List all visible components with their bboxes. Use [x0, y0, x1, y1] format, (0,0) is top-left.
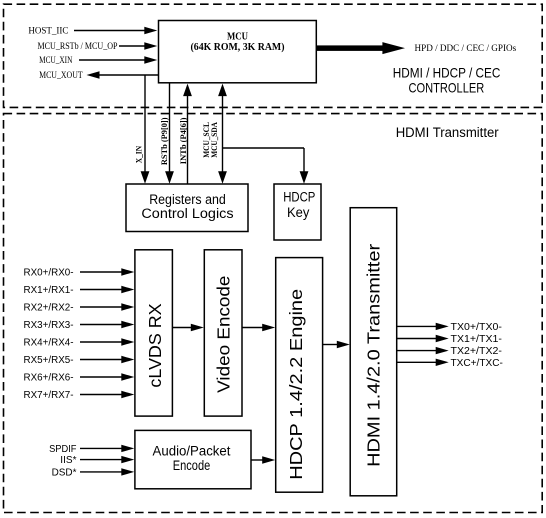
svg-text:HOST_IIC: HOST_IIC: [28, 25, 68, 35]
svg-text:Audio/Packet: Audio/Packet: [153, 443, 231, 458]
svg-text:TX1+/TX1-: TX1+/TX1-: [451, 334, 502, 345]
svg-text:RX6+/RX6-: RX6+/RX6-: [24, 373, 74, 384]
svg-text:MCU_RSTb / MCU_OP: MCU_RSTb / MCU_OP: [38, 41, 118, 51]
svg-text:TXC+/TXC-: TXC+/TXC-: [451, 358, 503, 369]
svg-text:HDMI Transmitter: HDMI Transmitter: [396, 125, 499, 140]
block HDCP Key: [274, 184, 321, 240]
svg-text:RX7+/RX7-: RX7+/RX7-: [24, 390, 74, 401]
wire RX7+/RX7- input: [24, 390, 135, 401]
svg-text:X_IN: X_IN: [134, 146, 143, 163]
svg-text:(64K ROM, 3K RAM): (64K ROM, 3K RAM): [191, 42, 285, 53]
svg-text:HPD / DDC / CEC / GPIOs: HPD / DDC / CEC / GPIOs: [415, 43, 517, 53]
svg-text:Registers and: Registers and: [149, 192, 226, 207]
svg-text:IIS*: IIS*: [60, 455, 76, 466]
block cLVDS RX: [135, 250, 173, 416]
wire RSTb(P9[0]) from MCU down to Registers: [160, 83, 174, 184]
wire RX5+/RX5- input: [24, 355, 135, 366]
wire MCU_XOUT out of MCU (arrow left): [39, 70, 158, 80]
svg-text:Encode: Encode: [173, 458, 211, 473]
wire MCU_XIN into MCU: [39, 55, 157, 65]
block Video Encode: [204, 250, 242, 416]
svg-text:DSD*: DSD*: [52, 467, 77, 478]
wire TX1+/TX1- output: [397, 334, 502, 345]
wire X_IN from MCU_XOUT net down to Registers: [134, 75, 149, 184]
wire IIS* input: [60, 455, 134, 466]
block Registers and Control Logics: [126, 184, 248, 232]
wire HOST_IIC into MCU: [28, 25, 157, 35]
section title HDMI / HDCP / CEC CONTROLLER: [393, 65, 501, 96]
block MCU (64K ROM, 3K RAM): [159, 21, 317, 83]
svg-text:MCU_XIN: MCU_XIN: [39, 55, 73, 65]
block HDCP 1.4/2.2 Engine: [276, 258, 323, 493]
svg-text:INTb (P4[6]): INTb (P4[6]): [179, 117, 188, 164]
svg-text:RX2+/RX2-: RX2+/RX2-: [24, 303, 74, 314]
svg-text:HDCP: HDCP: [283, 190, 315, 205]
wire INTb(P4[6]) from Registers up to MCU: [179, 84, 192, 184]
wire Audio/Packet Encode to HDCP Engine: [251, 456, 275, 463]
svg-text:CONTROLLER: CONTROLLER: [409, 79, 485, 95]
svg-text:HDCP 1.4/2.2 Engine: HDCP 1.4/2.2 Engine: [286, 289, 306, 480]
svg-text:HDMI 1.4/2.0 Transmitter: HDMI 1.4/2.0 Transmitter: [364, 244, 384, 467]
wire DSD* input: [52, 467, 135, 478]
svg-text:SPDIF: SPDIF: [49, 444, 76, 455]
wire RX4+/RX4- input: [24, 338, 135, 349]
svg-text:Control Logics: Control Logics: [141, 206, 233, 221]
svg-text:RX1+/RX1-: RX1+/RX1-: [24, 285, 74, 296]
svg-text:RX4+/RX4-: RX4+/RX4-: [24, 338, 74, 349]
svg-text:TX0+/TX0-: TX0+/TX0-: [451, 322, 502, 333]
wire RX3+/RX3- input: [24, 320, 135, 331]
dashed section border: HDMI transmitter (bottom): [4, 114, 543, 513]
svg-text:RX5+/RX5-: RX5+/RX5-: [24, 355, 74, 366]
wire MCU_SCL / MCU_SDA between MCU and Registers: [202, 84, 227, 184]
svg-text:HDMI / HDCP / CEC: HDMI / HDCP / CEC: [393, 65, 501, 81]
wire cLVDS RX to Video Encode: [173, 324, 204, 331]
section title HDMI Transmitter: [396, 125, 499, 140]
svg-text:RX0+/RX0-: RX0+/RX0-: [24, 268, 74, 279]
wire RX1+/RX1- input: [24, 285, 135, 296]
svg-text:RX3+/RX3-: RX3+/RX3-: [24, 320, 74, 331]
svg-text:MCU: MCU: [227, 31, 248, 42]
wire RX0+/RX0- input: [24, 268, 135, 279]
svg-text:TX2+/TX2-: TX2+/TX2-: [451, 346, 502, 357]
svg-text:Key: Key: [287, 205, 310, 220]
svg-text:RSTb (P9[0]): RSTb (P9[0]): [160, 117, 169, 165]
wire RX2+/RX2- input: [24, 303, 135, 314]
wire branch from MCU_SCL/SDA to HDCP Key: [223, 148, 309, 184]
wire HDCP Engine to HDMI Transmitter: [323, 341, 350, 348]
thick bus arrow HPD/DDC/CEC/GPIOs out of MCU: [316, 42, 517, 54]
wire SPDIF input: [49, 444, 134, 455]
wire TX0+/TX0- output: [397, 322, 502, 333]
svg-text:cLVDS RX: cLVDS RX: [145, 303, 165, 388]
block HDMI 1.4/2.0 Transmitter: [350, 208, 397, 496]
svg-text:MCU_SDA: MCU_SDA: [210, 122, 219, 158]
svg-text:MCU_XOUT: MCU_XOUT: [39, 70, 83, 80]
block Audio/Packet Encode: [135, 430, 251, 488]
wire RX6+/RX6- input: [24, 373, 135, 384]
wire Video Encode to HDCP Engine: [242, 324, 275, 331]
wire TX2+/TX2- output: [397, 346, 502, 357]
dashed section border: HDMI/HDCP/CEC controller (top): [4, 4, 543, 107]
wire MCU_RSTb / MCU_OP into MCU: [38, 41, 158, 51]
wire TXC+/TXC- output: [397, 358, 503, 369]
svg-text:Video Encode: Video Encode: [213, 276, 233, 393]
